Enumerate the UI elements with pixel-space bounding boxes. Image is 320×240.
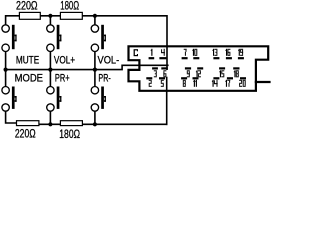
pushbutton VOL+ <box>47 25 54 52</box>
svg-text:VOL+: VOL+ <box>54 55 75 67</box>
wire VOL+ drop from top rail <box>49 16 51 24</box>
pin 7 label <box>184 49 187 56</box>
wire middle rail <box>6 65 168 69</box>
resistor R3 220 ohm bottom <box>17 121 39 126</box>
pin 16 slot <box>226 57 232 59</box>
svg-text:VOL-: VOL- <box>98 55 120 67</box>
junction node top rail VOL- <box>93 14 97 18</box>
pin 18 slot <box>233 67 239 69</box>
pin 11 label <box>193 80 197 87</box>
wire VOL- drop from top rail <box>94 16 96 24</box>
wire MODE bottom to bottom rail <box>6 112 17 123</box>
connector key stub right <box>256 81 270 83</box>
wire top rail middle segment <box>40 15 60 17</box>
resistor R1 220 ohm top <box>19 12 40 19</box>
pin 9 label <box>187 70 190 77</box>
pin 2 slot <box>146 77 152 79</box>
junction node bottom rail PR+ <box>48 122 52 126</box>
junction node bottom rail PR- <box>93 122 97 126</box>
wire PR- top from middle rail <box>94 70 96 86</box>
pin 1 slot <box>149 57 155 59</box>
wire VOL- bottom to middle rail <box>94 52 96 70</box>
resistor R2 180 ohm top <box>60 12 82 19</box>
junction node middle rail VOL+ <box>48 68 52 72</box>
wire MUTE bottom to middle rail <box>5 52 7 70</box>
wire VOL+ bottom to middle rail <box>49 52 51 70</box>
pin 3 label <box>154 70 157 77</box>
pin 6 slot <box>161 67 168 69</box>
pin 17 label <box>225 80 230 87</box>
pin 12 slot <box>197 67 203 69</box>
pin 2 label <box>149 80 152 87</box>
wire bottom rail middle segment <box>39 123 61 125</box>
pin 19 slot <box>238 57 244 59</box>
pin 7 slot <box>182 57 188 59</box>
pin 17 slot <box>227 77 233 79</box>
wire bottom rail to connector bottom <box>166 78 168 125</box>
svg-text:220Ω: 220Ω <box>16 0 38 13</box>
svg-text:PR-: PR- <box>98 73 111 85</box>
pin 14 label <box>212 80 218 87</box>
svg-text:MUTE: MUTE <box>16 55 39 67</box>
svg-text:180Ω: 180Ω <box>60 0 79 12</box>
pin 13 label <box>212 49 217 56</box>
junction node middle rail MUTE <box>4 68 8 72</box>
pin 10 label <box>192 49 197 56</box>
pushbutton VOL- <box>91 25 98 52</box>
pin 11 slot <box>193 77 199 79</box>
pin 16 label <box>225 49 230 56</box>
pin 13 slot <box>213 57 219 59</box>
pin 18 label <box>234 70 239 77</box>
pushbutton PR+ <box>47 87 54 112</box>
label C connector <box>134 49 138 56</box>
pin 5 label <box>161 80 164 87</box>
pin 14 slot <box>213 77 219 79</box>
pin 9 slot <box>185 67 191 69</box>
svg-text:180Ω: 180Ω <box>59 127 80 139</box>
pin 20 slot <box>240 77 246 79</box>
pin 4 slot <box>159 57 166 59</box>
svg-text:MODE: MODE <box>15 73 43 85</box>
wire bottom rail right segment <box>82 123 166 125</box>
pin 15 slot <box>219 67 225 69</box>
pin 1 label <box>151 49 153 56</box>
svg-text:PR+: PR+ <box>55 73 70 85</box>
wire PR+ drop to bottom rail <box>49 112 51 125</box>
pin 5 slot <box>159 77 165 79</box>
pin 4 label <box>161 49 165 56</box>
connector C outline <box>129 46 270 91</box>
pin 8 label <box>183 80 186 87</box>
wire top rail right segment <box>82 16 167 69</box>
svg-text:220Ω: 220Ω <box>15 127 36 139</box>
wire PR+ top from middle rail <box>49 70 51 86</box>
resistor R4 180 ohm bottom <box>60 121 82 126</box>
wire top rail left segment <box>6 16 20 24</box>
junction node top rail VOL+ <box>48 14 52 18</box>
pushbutton MODE <box>2 87 9 112</box>
pin 10 slot <box>193 57 199 59</box>
junction node middle rail VOL- <box>93 68 97 72</box>
pin 8 slot <box>181 77 187 79</box>
pin 19 label <box>238 49 243 56</box>
pin 6 label <box>163 70 166 77</box>
wire MODE top from middle rail <box>5 70 7 86</box>
pin slots top row <box>146 57 246 79</box>
pin 12 label <box>196 70 201 77</box>
pin 20 label <box>239 80 246 87</box>
pushbutton MUTE <box>2 25 9 52</box>
wire PR- drop to bottom rail <box>94 112 96 125</box>
pin 3 slot <box>152 67 158 69</box>
pin 15 label <box>219 70 224 77</box>
pushbutton PR- <box>91 87 98 112</box>
